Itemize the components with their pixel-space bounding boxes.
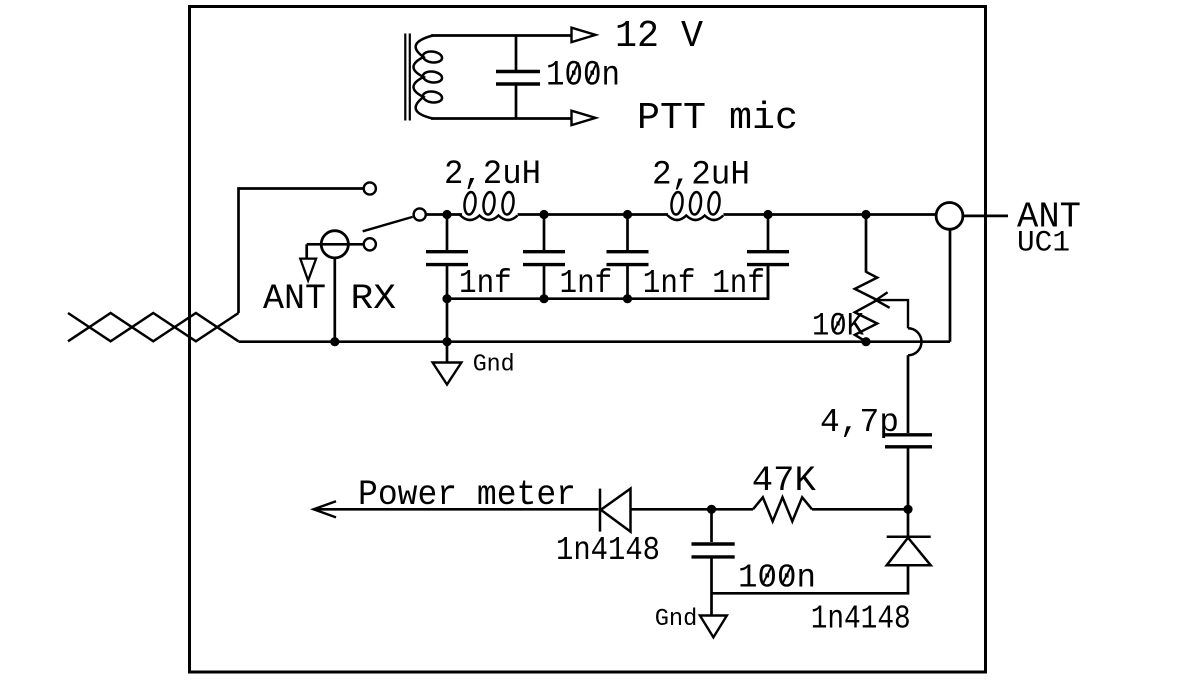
svg-text:100n: 100n: [738, 560, 816, 597]
switch pole contact: [414, 208, 426, 220]
wire main RF line: [426, 215, 1008, 216]
switch lever: [363, 217, 413, 231]
junction: [707, 505, 716, 514]
svg-text:Gnd: Gnd: [473, 352, 515, 379]
wire connector to ground bus: [333, 258, 336, 342]
wire hop over ground bus: [908, 328, 922, 355]
wire to antenna arrow: [305, 244, 308, 258]
svg-text:1n4148: 1n4148: [811, 601, 911, 638]
svg-text:PTT mic: PTT mic: [637, 97, 798, 140]
svg-text:100n: 100n: [546, 56, 620, 96]
junction: [861, 337, 870, 346]
transformer core: [405, 34, 410, 121]
junction: [623, 210, 632, 219]
junction: [330, 337, 339, 346]
ground Gnd (bottom): [700, 616, 727, 638]
junction: [903, 505, 912, 514]
wire resistor to detector node: [812, 508, 908, 511]
svg-text:Gnd: Gnd: [655, 606, 698, 633]
switch throw contact (bottom): [364, 238, 376, 250]
antenna feeder line: [68, 313, 239, 341]
wire diode to junction: [631, 508, 754, 511]
diode D2 1n4148: [887, 509, 931, 565]
svg-text:UC1: UC1: [1017, 226, 1070, 260]
PTT mic output arrow: [572, 111, 596, 125]
wire PTT feed: [431, 117, 571, 120]
capacitor C3 1nf: [626, 215, 629, 299]
junction: [442, 294, 451, 303]
svg-text:10K: 10K: [812, 307, 865, 344]
capacitor C7 100n leads: [710, 509, 713, 615]
border frame: [190, 7, 986, 673]
svg-text:RX: RX: [351, 279, 397, 319]
svg-text:1nf: 1nf: [560, 265, 613, 302]
capacitor C6 4,7p leads: [907, 355, 910, 509]
capacitor C4 1nf: [767, 215, 770, 299]
power meter arrow: [314, 501, 337, 517]
connector ANT RX: [321, 231, 348, 258]
diode D1 1n4148: [600, 489, 631, 532]
wire D2 to C7: [712, 565, 909, 593]
svg-text:1nf: 1nf: [643, 265, 696, 302]
junction: [763, 210, 772, 219]
svg-text:Power meter: Power meter: [358, 475, 576, 515]
wire 12V feed: [431, 34, 571, 37]
svg-text:47K: 47K: [752, 461, 816, 501]
wire connector to bottom throw: [307, 243, 364, 246]
potentiometer wiper arrow: [876, 292, 908, 328]
capacitor C6 plates: [885, 435, 932, 447]
connector UC1: [936, 203, 963, 230]
junction: [539, 210, 548, 219]
antenna arrow symbol: [300, 259, 316, 281]
junction: [623, 294, 632, 303]
wire capacitor ground rail: [447, 266, 768, 299]
switch throw contact (top): [364, 182, 376, 194]
svg-text:2,2uH: 2,2uH: [652, 157, 750, 195]
svg-text:1nf: 1nf: [712, 265, 765, 302]
capacitor C2 1nf: [543, 215, 546, 299]
inductor L1 2,2uH: [461, 191, 518, 220]
wire main line to potentiometer: [865, 215, 868, 273]
svg-text:4,7p: 4,7p: [820, 404, 899, 441]
junction: [442, 337, 451, 346]
capacitor C5 plates: [496, 72, 540, 85]
capacitor C5 100n leads: [515, 36, 518, 119]
svg-text:1n4148: 1n4148: [556, 532, 660, 569]
ground Gnd: [446, 342, 449, 362]
junction: [442, 210, 451, 219]
junction: [539, 294, 548, 303]
resistor R2 47K: [753, 497, 812, 521]
wire ground bus up to UC1: [949, 229, 952, 342]
inductor L3 winding: [414, 36, 443, 119]
wire rail to ground bus: [446, 299, 449, 342]
wire power meter line: [314, 508, 599, 511]
svg-text:12 V: 12 V: [615, 15, 703, 58]
capacitor C7 plates: [692, 544, 735, 557]
svg-text:1nf: 1nf: [459, 265, 512, 302]
inductor L2 2,2uH: [668, 191, 724, 220]
svg-text:ANT: ANT: [263, 279, 326, 319]
wire antenna to switch top throw: [239, 189, 364, 314]
svg-text:2,2uH: 2,2uH: [444, 156, 541, 194]
capacitor C1 1nf: [446, 215, 449, 299]
wire ground bus: [239, 340, 951, 343]
junction: [861, 210, 870, 219]
potentiometer R1 10K body: [855, 272, 877, 342]
12 V output arrow: [572, 28, 596, 42]
